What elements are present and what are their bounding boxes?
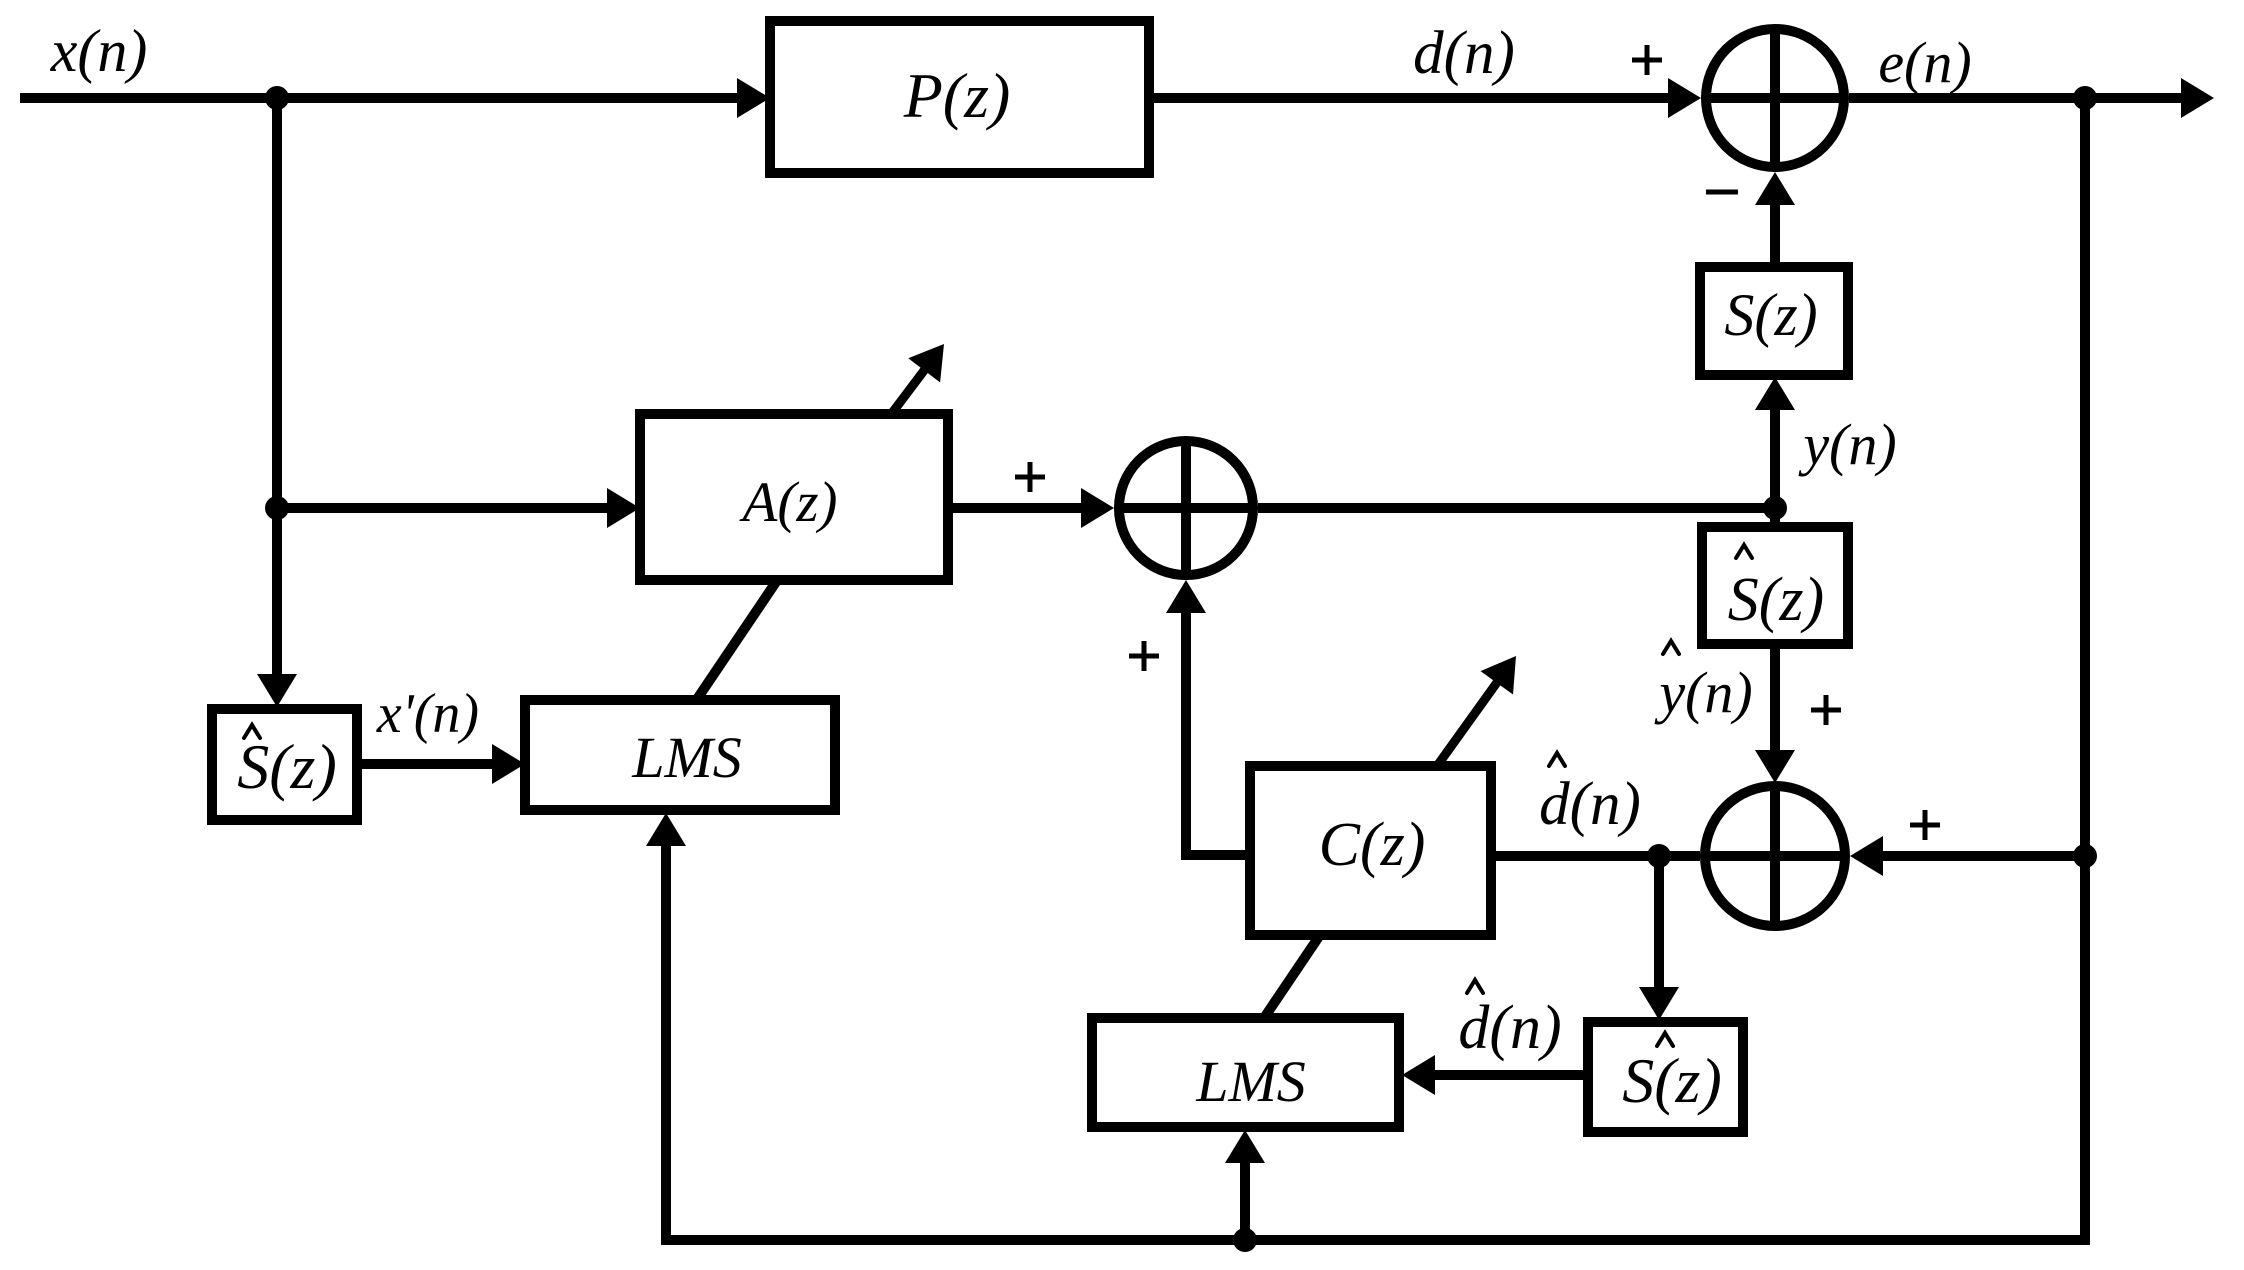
svg-text:y(n): y(n) bbox=[1654, 660, 1752, 725]
svg-text:A(z): A(z) bbox=[739, 471, 838, 534]
svg-text:x(n): x(n) bbox=[50, 18, 148, 84]
svg-text:S(z): S(z) bbox=[1728, 566, 1824, 634]
svg-text:e(n): e(n) bbox=[1878, 30, 1971, 95]
svg-text:S(z): S(z) bbox=[1724, 282, 1817, 348]
svg-text:d(n): d(n) bbox=[1413, 20, 1515, 87]
svg-text:C(z): C(z) bbox=[1319, 811, 1426, 879]
svg-text:d(n): d(n) bbox=[1539, 771, 1641, 838]
svg-text:x'(n): x'(n) bbox=[376, 683, 479, 745]
svg-text:S(z): S(z) bbox=[1622, 1045, 1722, 1116]
svg-text:LMS: LMS bbox=[1195, 1049, 1306, 1114]
svg-text:LMS: LMS bbox=[631, 725, 742, 790]
svg-text:P(z): P(z) bbox=[903, 60, 1011, 131]
svg-text:y(n): y(n) bbox=[1798, 412, 1896, 477]
svg-text:S(z): S(z) bbox=[237, 731, 337, 802]
svg-text:d(n): d(n) bbox=[1458, 994, 1561, 1062]
